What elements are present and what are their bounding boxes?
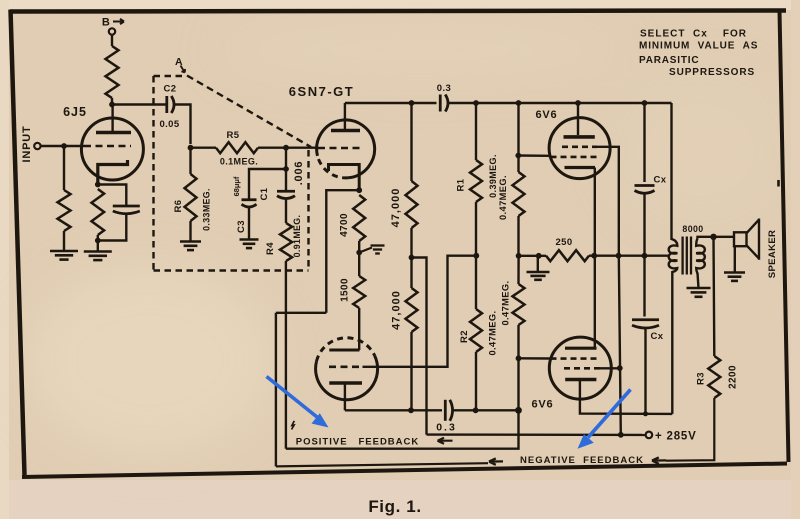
6V6b screen (dashed) [564, 367, 600, 370]
resistor 1500 [353, 276, 365, 308]
wire top rail to primary [670, 103, 672, 240]
6J5 plate bar [96, 131, 131, 135]
wire cathode node riser [326, 190, 359, 313]
6V6b cathode bar [565, 347, 597, 350]
node +285V / screen rail [618, 432, 624, 438]
svg-text:C1: C1 [259, 187, 270, 200]
svg-text:SUPPRESSORS: SUPPRESSORS [669, 67, 755, 78]
6V6a cathode bar [565, 166, 596, 169]
wire top to Cx upper [643, 103, 645, 182]
capacitor C1 .006 [277, 191, 295, 198]
wire 6V6b screen to rail [600, 367, 620, 369]
wire to 6V6b grid [519, 357, 550, 360]
wire [358, 253, 360, 277]
capacitor cathode bypass [113, 206, 140, 214]
svg-text:8000: 8000 [682, 224, 703, 234]
resistor R3 2200 [708, 356, 720, 398]
node 6J5 plate [109, 102, 115, 108]
wire [644, 328, 646, 414]
node 6V6b grid tap [516, 355, 522, 361]
svg-text:.006: .006 [293, 161, 305, 186]
B+ terminal [109, 28, 115, 34]
6V6b plate lead to transformer [580, 381, 672, 414]
svg-text:0.91MEG.: 0.91MEG. [292, 215, 302, 258]
wire C2 to R5/R6 node [175, 105, 191, 145]
resistor 250 [546, 250, 589, 261]
capacitor C3 68uuf [242, 200, 257, 207]
node grid/R-grid [61, 143, 67, 149]
6V6a plate bar [564, 135, 595, 139]
resistor R6 0.33MEG [185, 174, 197, 221]
node top rail / 0.47M [516, 100, 522, 106]
svg-text:6SN7-GT: 6SN7-GT [289, 84, 354, 99]
svg-text:1500: 1500 [340, 278, 351, 302]
svg-text:0.47MEG.: 0.47MEG. [500, 280, 510, 325]
svg-text:+ 285V: + 285V [655, 431, 697, 443]
wire [410, 228, 412, 258]
tube 6SN7a envelope dashed [318, 156, 349, 178]
wire [358, 241, 360, 253]
wire screen rail vertical [619, 256, 621, 435]
wire R5 to grid node [258, 146, 286, 148]
capacitor 0.3 bottom [445, 400, 452, 421]
node ground tap [536, 253, 542, 259]
wire secondary bottom to ground [698, 273, 699, 288]
svg-text:6J5: 6J5 [63, 105, 87, 119]
svg-text:Cx: Cx [654, 175, 667, 186]
6V6a screen (dashed) [562, 146, 597, 149]
resistor R5 0.1MEG [216, 142, 258, 153]
terminal +285V [646, 432, 653, 439]
svg-text:47,000: 47,000 [390, 188, 402, 228]
svg-text:0.33MEG.: 0.33MEG. [202, 188, 212, 231]
wire 6V6a screen to +285V rail [597, 147, 619, 256]
svg-text:0.3: 0.3 [436, 422, 457, 434]
node 47k junction [409, 255, 415, 261]
wire cathode rail to primary [594, 254, 669, 256]
transformer primary winding [669, 239, 678, 272]
wire plate line right [454, 409, 519, 411]
node C3 tap [283, 166, 289, 172]
6J5 plate lead [111, 105, 113, 132]
wire [589, 254, 594, 256]
svg-text:4700: 4700 [339, 213, 350, 237]
svg-text:250: 250 [555, 237, 572, 248]
ground input [50, 251, 78, 260]
6SN7b plate lead [344, 384, 346, 410]
node R5/R6/C2 [188, 145, 194, 151]
arrow positive feedback [438, 438, 453, 444]
node top rail / 47k [409, 100, 415, 106]
speaker driver box [734, 232, 747, 246]
wire secondary top [698, 237, 713, 239]
node 6V6a grid tap [515, 153, 521, 159]
arrow at A [181, 66, 186, 73]
resistor grid leak [58, 190, 71, 231]
capacitor C2 [167, 96, 174, 113]
resistor 47000 upper [406, 181, 418, 228]
svg-text:Cx: Cx [651, 331, 664, 342]
wire [517, 256, 519, 284]
wire to small ground [359, 248, 372, 253]
wire to grid resistor [63, 146, 65, 190]
6V6b grid (dashed) [551, 357, 599, 360]
resistor 6J5 plate load [106, 46, 119, 98]
wire [643, 256, 645, 317]
wire 6SN7b grid to R1/R2 node [363, 256, 477, 367]
wire primary to 6V6b plate line [671, 271, 673, 414]
resistor 47000 lower [406, 288, 418, 332]
svg-text:R4: R4 [265, 242, 276, 255]
node screen rail [616, 253, 622, 259]
frame border left [11, 10, 25, 476]
ground bias network [527, 272, 550, 280]
tube 6SN7b envelope solid [316, 356, 378, 400]
6V6b plate bar [565, 378, 596, 382]
wire C1 to R4 [285, 199, 287, 223]
wire negative feedback bottom left [276, 463, 488, 466]
wire top rail left [345, 102, 437, 104]
node cathode rail [591, 253, 597, 259]
svg-text:0.1MEG.: 0.1MEG. [220, 157, 258, 167]
6J5 cathode [98, 160, 128, 183]
dashed box bottom [154, 269, 309, 271]
wire top rail right [449, 102, 672, 104]
tube 6SN7a envelope solid [317, 120, 375, 178]
node top rail / R1 [473, 100, 479, 106]
ground R6 [180, 242, 201, 251]
resistor R2 0.47MEG [470, 309, 482, 352]
wire plate line left [345, 409, 442, 411]
6V6a plate lead [577, 103, 579, 135]
svg-text:0.47MEG.: 0.47MEG. [498, 175, 508, 220]
wire to R6 [189, 148, 191, 174]
blue arrow negative feedback [578, 390, 631, 449]
svg-text:INPUT: INPUT [21, 126, 33, 163]
ground 6J5 cathode [84, 252, 112, 261]
wire [410, 332, 412, 410]
dashed diagonal A to 6SN7 grid [187, 76, 311, 148]
ground 4700/1500 tap [371, 246, 385, 254]
wire to C3 [249, 169, 286, 199]
6SN7a plate lead [344, 103, 346, 129]
wire to 6V6a grid [518, 154, 549, 157]
ground speaker [724, 273, 745, 281]
tick mark [777, 180, 780, 187]
wire [475, 256, 477, 309]
wire to ground [63, 231, 65, 251]
tube 6V6a envelope [549, 118, 610, 179]
6SN7a grid (dashed) [318, 147, 364, 150]
resistor R1 0.39MEG [470, 160, 482, 202]
6SN7a cathode [329, 165, 360, 190]
wire negative feedback left riser [275, 313, 277, 467]
resistor 0.47MEG upper [513, 172, 525, 216]
wire speaker to ground [734, 246, 736, 272]
frame border bottom [22, 464, 787, 478]
svg-text:6V6: 6V6 [536, 109, 558, 121]
input terminal [34, 143, 40, 149]
node top rail / Cx [642, 100, 648, 106]
wire C3 to ground [248, 208, 250, 240]
node cathode RC [95, 238, 101, 244]
node Cx mid [642, 253, 648, 259]
blue arrow positive feedback [267, 377, 329, 428]
wire [97, 235, 99, 251]
small bolt arrow [292, 421, 295, 430]
transformer core line 1 [681, 237, 683, 275]
wire [191, 146, 217, 148]
wire to speaker [714, 236, 735, 238]
capacitor Cx lower [632, 320, 659, 328]
wire 6V6a cathode down to 6V6b cathode [594, 168, 596, 349]
svg-text:NEGATIVE FEEDBACK: NEGATIVE FEEDBACK [520, 455, 644, 466]
wire [643, 194, 645, 256]
node speaker/R3 [710, 234, 716, 240]
speaker horn [747, 219, 760, 260]
capacitor 0.3 top [440, 95, 448, 112]
wire [475, 103, 477, 160]
6J5 grid (dashed) [84, 145, 131, 148]
wire +285V rail [427, 433, 646, 436]
svg-text:Fig. 1.: Fig. 1. [368, 497, 421, 516]
wire positive feedback loop [286, 410, 519, 448]
node 0.47M junction [516, 253, 522, 259]
node 6SN7 grid [283, 145, 289, 151]
node 6J5 cathode [95, 182, 101, 188]
wire plate node to C2 [112, 103, 167, 105]
wire grid node to tube [286, 146, 317, 148]
svg-text:C3: C3 [236, 220, 247, 233]
svg-text:2200: 2200 [728, 365, 739, 389]
node R2 bottom [473, 407, 479, 413]
dashed box top [154, 75, 185, 77]
svg-text:R5: R5 [227, 130, 240, 141]
tube 6SN7b envelope dashed [317, 338, 375, 362]
svg-text:68μμf: 68μμf [232, 176, 241, 196]
svg-text:6V6: 6V6 [532, 399, 554, 411]
wire [517, 103, 519, 172]
transformer secondary winding [696, 239, 705, 274]
wire [410, 258, 412, 289]
wire [410, 103, 412, 181]
svg-text:C2: C2 [164, 84, 177, 95]
ground C3 [240, 240, 259, 249]
6V6a grid (dashed) [551, 156, 598, 159]
wire feedback stub [276, 312, 326, 314]
node 6SN7a cathode [356, 187, 362, 193]
node R1/R2 [473, 253, 479, 259]
svg-text:PARASITIC: PARASITIC [639, 55, 699, 66]
svg-text:MINIMUM VALUE AS: MINIMUM VALUE AS [639, 41, 758, 52]
wire [111, 98, 113, 104]
resistor 0.47MEG lower [513, 284, 525, 325]
wire R6 to ground [189, 221, 191, 242]
6SN7b plate bar [329, 381, 362, 385]
transformer core line 3 [690, 237, 692, 275]
wire [475, 202, 477, 256]
svg-text:R1: R1 [455, 178, 466, 191]
svg-text:0.3: 0.3 [437, 83, 451, 94]
wire R3 top [712, 237, 715, 356]
svg-text:R2: R2 [459, 330, 470, 343]
arrow negative feedback right [652, 457, 666, 463]
svg-text:0.39MEG.: 0.39MEG. [488, 154, 498, 198]
node top rail / 6V6a plate [575, 100, 581, 106]
wire to bypass cap [98, 185, 127, 206]
tube 6J5 envelope [81, 118, 143, 180]
svg-text:47,000: 47,000 [391, 290, 403, 330]
svg-text:POSITIVE FEEDBACK: POSITIVE FEEDBACK [296, 437, 420, 448]
6SN7b cathode bar [329, 349, 359, 352]
wire [475, 352, 477, 410]
wire negative feedback to R3 [666, 398, 714, 461]
svg-text:SELECT Cx FOR: SELECT Cx FOR [640, 29, 747, 40]
svg-text:R6: R6 [173, 200, 184, 213]
svg-text:B: B [102, 17, 110, 29]
dashed box right [307, 150, 309, 271]
6SN7b grid (dashed) [329, 365, 362, 368]
svg-text:0.05: 0.05 [159, 119, 179, 130]
wire to ground tap [519, 255, 546, 257]
capacitor Cx upper [635, 186, 655, 194]
arrow negative feedback left [489, 458, 503, 464]
wire to +285V rail [412, 258, 427, 435]
dashed box left [152, 76, 154, 271]
resistor 4700 [353, 195, 365, 241]
node 47k bottom [408, 407, 414, 413]
node positive feedback [515, 407, 522, 414]
wire 1500 to 6SN7b cathode [358, 308, 360, 350]
svg-text:SPEAKER: SPEAKER [767, 230, 778, 278]
resistor 6J5 cathode bias [92, 189, 105, 235]
wire [517, 325, 519, 410]
transformer core line 2 [686, 237, 688, 275]
6SN7a plate bar [331, 129, 360, 133]
wire grid node down to C1 [285, 148, 287, 190]
resistor R4 0.91MEG [280, 223, 292, 261]
frame border top [10, 11, 786, 12]
wire input to grid [41, 145, 84, 147]
node 4700/1500 [356, 250, 362, 256]
wire bypass cap to ground node [98, 214, 127, 241]
node screen rail lower [617, 365, 623, 371]
svg-text:R3: R3 [695, 372, 706, 385]
wire ground stub [537, 256, 539, 272]
wire [517, 216, 519, 256]
svg-text:0.47MEG.: 0.47MEG. [487, 310, 497, 355]
tube 6V6b envelope [549, 337, 611, 399]
node Cx lower / plate line [643, 411, 648, 416]
wire R4 down to positive feedback loop [285, 261, 287, 449]
wire B+ to plate resistor [111, 35, 113, 46]
frame border right [780, 11, 789, 462]
ground transformer secondary [687, 288, 711, 297]
